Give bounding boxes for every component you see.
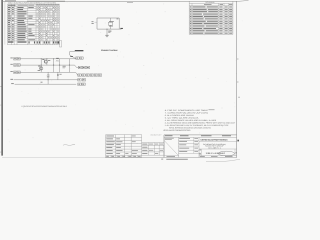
branch wire to output group 1 — [69, 50, 83, 72]
wire to ground — [107, 29, 108, 36]
wire row 4 — [14, 79, 78, 81]
parts list table cell text — [8, 5, 59, 44]
wire row 1 — [20, 58, 75, 60]
form text below border — [161, 159, 240, 162]
pin label near top right corner — [117, 18, 119, 21]
svg-text:D: D — [199, 153, 201, 156]
contract cell with diagonal — [164, 138, 179, 157]
effectivity label — [151, 133, 162, 136]
schematic heading label — [101, 49, 118, 52]
output stub and terminal J1 — [119, 28, 123, 29]
label under row 4 — [41, 81, 43, 84]
notes block — [163, 109, 236, 132]
application table text — [106, 136, 140, 157]
revision table grid — [189, 1, 233, 34]
wire loop of test circuit — [97, 18, 119, 29]
transistor Q1 — [42, 59, 50, 63]
wire row 2 — [20, 64, 74, 66]
title block frame — [164, 135, 237, 158]
note line 1 — [21, 105, 67, 108]
reference box below parts table — [60, 41, 62, 47]
vertical wire C — [53, 59, 55, 73]
effectivity table text — [142, 144, 163, 154]
input connector P1 — [10, 58, 20, 61]
svg-text:SCHEMATIC DIAGRAM,: SCHEMATIC DIAGRAM, — [203, 143, 227, 146]
vertical wire G — [57, 72, 59, 80]
company name — [199, 138, 237, 141]
input connector P2 — [10, 64, 20, 67]
effectivity table grid — [142, 135, 164, 158]
scale sheet row — [199, 156, 237, 157]
ground symbol — [105, 35, 109, 37]
svg-text:1. FOR CIRCUIT DETAILS SEE SCH: 1. FOR CIRCUIT DETAILS SEE SCHEMATIC DIA… — [21, 105, 67, 108]
svg-text:NOTES: UNLESS OTHERWISE SPECIF: NOTES: UNLESS OTHERWISE SPECIFIED — [163, 129, 191, 132]
parts list table title — [8, 2, 56, 5]
parts list table grid — [7, 4, 59, 45]
svg-text:PARTIAL REFERENCE DESIGNATIONS: PARTIAL REFERENCE DESIGNATIONS ARE SHOWN… — [169, 126, 211, 129]
wire row 5 — [15, 83, 77, 85]
output connector group 3 — [76, 72, 102, 76]
application table grid — [106, 135, 142, 158]
input connector P3 — [10, 71, 20, 74]
resistor R2 — [63, 66, 66, 68]
wire row 3 — [20, 71, 75, 73]
svg-text:SM-D-638652: SM-D-638652 — [206, 152, 227, 155]
transistor Q2 — [38, 66, 43, 71]
mark outside right border — [237, 140, 239, 142]
junction dots — [41, 58, 70, 80]
revision table text — [190, 1, 233, 34]
output connector group 2 — [75, 65, 90, 69]
title block header text — [165, 134, 231, 137]
node E1 label — [108, 31, 111, 33]
svg-text:SCHEMATIC DIAGRAM: SCHEMATIC DIAGRAM — [101, 49, 118, 52]
vertical wire D — [59, 59, 61, 73]
label L1 left of test circuit — [92, 21, 98, 24]
output connector group 5 — [78, 83, 86, 85]
vertical wire B — [46, 59, 48, 65]
output connector group 4 — [78, 79, 86, 81]
svg-text:UNITED ELECTRODYNAMICS: UNITED ELECTRODYNAMICS — [201, 138, 229, 141]
resistor R3 — [47, 75, 50, 78]
vertical wire F — [47, 72, 49, 84]
size and number cells — [199, 149, 236, 156]
node label row 5 — [11, 82, 14, 85]
output connector group 1 — [76, 57, 84, 59]
vertical wire A — [40, 59, 42, 73]
node label row 4 — [10, 78, 13, 81]
drawing title — [199, 143, 237, 150]
capacitor C1 in test circuit — [108, 18, 113, 29]
capacitor C2 — [57, 72, 62, 75]
resistor R1 — [56, 58, 59, 61]
svg-text:EFFECTIVITY: EFFECTIVITY — [151, 133, 162, 136]
approvals cells — [179, 137, 200, 153]
